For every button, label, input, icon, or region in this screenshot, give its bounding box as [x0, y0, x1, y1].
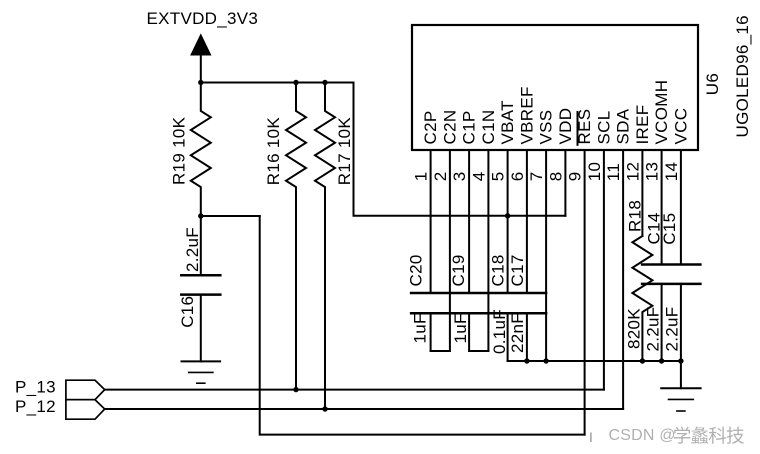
wire pin6 VBREF: [526, 150, 528, 293]
svg-text:3: 3: [450, 171, 469, 181]
capacitor plates C20 C19 C18 C17: [411, 292, 546, 295]
wire pin5 cap stub to gnd bus: [507, 313, 509, 361]
svg-text:C20: C20: [407, 254, 426, 286]
op IC U6 box: [412, 25, 698, 150]
connector P_13: [66, 380, 105, 400]
wire C19 bottom link pin3-pin4: [469, 350, 488, 352]
svg-text:2.2uF: 2.2uF: [644, 307, 663, 352]
svg-text:7: 7: [527, 171, 546, 181]
resistor R16: [286, 83, 306, 390]
wire pin8 VDD: [564, 150, 566, 216]
svg-text:P_12: P_12: [15, 397, 56, 416]
svg-text:9: 9: [566, 171, 585, 181]
wire pin6 cap stub to gnd bus: [526, 313, 528, 361]
resistor R19: [191, 83, 211, 217]
node junction power/R19: [198, 80, 203, 85]
node junction 3V3/VBAT pin5: [505, 213, 510, 218]
wire pin2 C2N: [449, 150, 451, 351]
node junction R17/SDA: [322, 406, 327, 411]
pin RES overline: [577, 112, 579, 145]
svg-text:8: 8: [546, 171, 565, 181]
wire gnd stem: [680, 361, 682, 388]
node junction C14/gnd: [659, 358, 664, 363]
svg-text:6: 6: [508, 171, 527, 181]
svg-text:C18: C18: [489, 254, 508, 286]
svg-text:1: 1: [412, 171, 431, 181]
wire pin3 C1P: [468, 150, 470, 293]
watermark edge mark: [590, 433, 592, 443]
svg-text:C19: C19: [449, 254, 468, 286]
svg-text:R17 10K: R17 10K: [335, 117, 354, 186]
svg-text:4: 4: [469, 171, 488, 181]
capacitor C16: [200, 216, 202, 275]
wire pin13 cap stub: [661, 284, 663, 361]
svg-text:C16: C16: [178, 296, 197, 328]
wire pin4 C1N: [487, 150, 489, 351]
node junction bus/R17: [322, 80, 327, 85]
svg-text:U6: U6: [703, 73, 722, 95]
power symbol EXTVDD_3V3 arrow: [191, 35, 211, 56]
wire pin1 cap stub: [430, 313, 432, 351]
svg-text:C1N: C1N: [479, 110, 498, 145]
svg-text:CSDN @: CSDN @: [609, 427, 676, 444]
wire pin1 C2P: [430, 150, 432, 293]
svg-text:2: 2: [431, 171, 450, 181]
svg-text:P_13: P_13: [15, 377, 56, 396]
svg-text:13: 13: [643, 162, 662, 182]
node junction R16/SCL: [293, 387, 298, 392]
wire pin14 VCC: [680, 150, 682, 265]
capacitor plates C14 C15: [642, 263, 700, 266]
svg-text:C2N: C2N: [440, 110, 459, 145]
svg-text:14: 14: [662, 162, 681, 182]
node junction C17/gnd: [524, 358, 529, 363]
svg-text:1uF: 1uF: [451, 313, 470, 343]
svg-text:VSS: VSS: [537, 110, 556, 145]
svg-text:SDA: SDA: [614, 108, 633, 144]
svg-text:EXTVDD_3V3: EXTVDD_3V3: [147, 9, 259, 28]
wire pin14 cap stub: [680, 284, 682, 361]
wire pin10 SCL: [603, 150, 605, 390]
svg-text:11: 11: [604, 163, 623, 181]
wire ground bus: [508, 360, 681, 362]
wire power stem: [200, 55, 202, 83]
wire SDA net P_12 to pin11: [105, 408, 623, 410]
wire pin7 VSS: [545, 150, 547, 361]
svg-text:C2P: C2P: [421, 111, 440, 145]
svg-text:0.1uF: 0.1uF: [490, 309, 509, 354]
svg-text:22nF: 22nF: [508, 313, 527, 353]
wire RES drop and run to pin9: [260, 216, 585, 435]
svg-text:VBREF: VBREF: [517, 86, 536, 144]
svg-text:VDD: VDD: [556, 108, 575, 145]
node junction C15/gnd: [678, 358, 683, 363]
wire top 3V3 bus: [201, 82, 354, 84]
svg-text:820K: 820K: [625, 308, 644, 349]
ground (C16): [182, 361, 221, 383]
wire pin13 VCOMH: [661, 150, 663, 265]
connector P_12: [66, 400, 105, 420]
wire pin3 cap stub: [468, 313, 470, 351]
resistor R17: [315, 83, 335, 410]
wire pin5 VBAT: [507, 150, 509, 293]
svg-text:R19 10K: R19 10K: [170, 116, 189, 185]
svg-text:UGOLED96_16: UGOLED96_16: [733, 15, 752, 137]
svg-text:C1P: C1P: [460, 111, 479, 145]
svg-text:R18: R18: [625, 200, 644, 232]
svg-text:VBAT: VBAT: [498, 100, 517, 144]
svg-text:IREF: IREF: [633, 105, 652, 145]
resistor R18: [632, 236, 652, 361]
svg-text:C15: C15: [660, 213, 679, 245]
svg-text:2.2uF: 2.2uF: [663, 307, 682, 352]
svg-text:SCL: SCL: [594, 111, 613, 145]
wire C20 bottom link pin1-pin2: [431, 350, 450, 352]
svg-text:5: 5: [489, 171, 508, 181]
wire SCL net P_13 to pin10: [105, 389, 604, 391]
node junction VSS/gnd: [543, 358, 548, 363]
svg-text:2.2uF: 2.2uF: [183, 227, 202, 272]
wire RES node horizontal: [201, 215, 260, 217]
svg-text:VCOMH: VCOMH: [652, 80, 671, 145]
wire pin11 SDA: [622, 150, 624, 409]
svg-text:12: 12: [623, 162, 642, 182]
svg-text:VCC: VCC: [671, 108, 690, 145]
svg-text:R16 10K: R16 10K: [264, 117, 283, 186]
svg-text:10: 10: [585, 162, 604, 182]
svg-text:C17: C17: [508, 254, 527, 286]
node junction bus/R16: [293, 80, 298, 85]
wire 3V3 drop to VBAT/VDD: [354, 83, 566, 216]
ground (main): [661, 388, 700, 411]
wire pin12 IREF to R18: [641, 150, 643, 236]
wire pin9 RES: [584, 150, 586, 435]
svg-text:1uF: 1uF: [411, 313, 430, 343]
node junction R19/C16/RES: [198, 213, 203, 218]
node junction R18/gnd: [640, 358, 645, 363]
